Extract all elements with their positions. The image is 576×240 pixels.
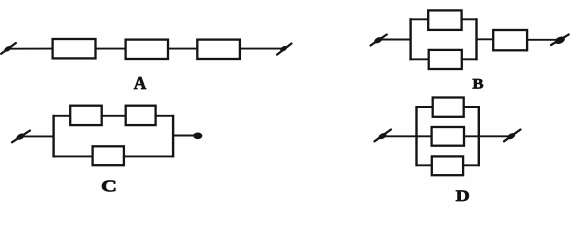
wire right rail to node — [172, 135, 195, 137]
resistor R5 (bottom of parallel pair) — [429, 50, 462, 69]
wire left rail to R12 — [416, 164, 433, 166]
wire left rail to R4 — [410, 18, 429, 20]
right rail of D — [478, 106, 480, 166]
terminal TC1 (left slash of circuit C) — [12, 131, 30, 143]
terminal TB2 (right slash of circuit B) — [551, 34, 569, 45]
wire right rail to R6 — [476, 38, 495, 40]
wire R5 to right rail — [462, 58, 478, 60]
svg-text:C: C — [101, 177, 117, 196]
resistor R3 — [197, 40, 240, 59]
resistor R8 (second of top series pair) — [126, 106, 156, 125]
resistor R11 (middle of parallel trio) — [432, 127, 464, 146]
wire R6 to TB2 — [527, 39, 557, 41]
right rail of B — [475, 18, 477, 60]
wire left rail to R9 — [53, 155, 94, 157]
circuit C: two series resistors in parallel with one resistor — [12, 106, 202, 196]
wire TB1 to left rail — [380, 39, 412, 41]
circuit D: three resistors in parallel — [375, 98, 521, 205]
wire R3 to TA2 — [240, 48, 283, 50]
resistor R10 (top of parallel trio) — [433, 98, 464, 117]
resistor R1 — [53, 39, 96, 58]
wire R2 to R3 — [168, 48, 198, 50]
node (filled dot terminal of circuit C) — [193, 133, 202, 140]
wire left rail to R5 — [410, 58, 430, 60]
terminal TA1 (left slash of circuit A) — [1, 43, 16, 54]
wire R4 to right rail — [462, 18, 478, 20]
left rail of B — [409, 18, 411, 60]
resistor R9 (bottom branch) — [93, 146, 124, 165]
terminal TD2 (right slash of circuit D) — [504, 130, 521, 142]
resistor R4 (top of parallel pair) — [428, 10, 461, 30]
wire R12 to right rail — [463, 164, 480, 166]
terminal TA2 (right slash of circuit A) — [277, 44, 292, 55]
main wire of D (crosses both rails) — [384, 135, 508, 137]
circuit B: two resistors in parallel, in series with one resistor — [371, 10, 569, 92]
wire R1 to R2 — [96, 48, 127, 50]
wire R8 to right rail — [156, 115, 174, 117]
resistor R7 (first of top series pair) — [70, 106, 102, 125]
wire TC1 to left rail — [22, 135, 55, 137]
wire TA1 to R1 — [9, 48, 53, 50]
wire R7 to R8 — [102, 115, 127, 117]
resistor R2 — [126, 40, 168, 59]
wire R9 to right rail — [124, 155, 174, 157]
wire R10 to right rail — [464, 106, 480, 108]
svg-text:B: B — [472, 76, 483, 92]
wire left rail to R10 — [416, 106, 434, 108]
left rail of C — [52, 115, 54, 158]
circuit A: three resistors in series — [1, 39, 291, 93]
resistor R12 (bottom of parallel trio) — [432, 156, 463, 175]
left rail of D — [415, 106, 417, 166]
wire left rail to R7 — [53, 115, 72, 117]
terminal TD1 (left slash of circuit D) — [375, 130, 392, 142]
svg-text:A: A — [134, 73, 147, 93]
resistor R6 (series resistor of B) — [493, 30, 527, 50]
svg-text:D: D — [456, 187, 470, 205]
right rail of C — [172, 115, 174, 158]
terminal TB1 (left slash of circuit B) — [371, 35, 387, 46]
